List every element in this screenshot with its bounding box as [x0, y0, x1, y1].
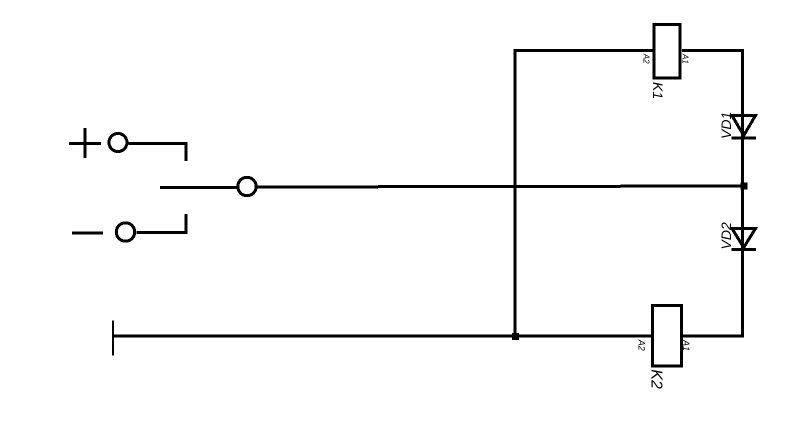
svg-text:A1: A1 [681, 339, 691, 351]
switch pole circle [238, 177, 256, 195]
wire middle net from pole to right branch [258, 186, 744, 187]
svg-text:K1: K1 [650, 82, 666, 99]
terminal bar bottom left [112, 321, 114, 356]
wire from minus contact to lower fixed contact stub [137, 214, 187, 233]
wire top-right, right vertical branch, bottom-right corner [682, 51, 743, 337]
wire top-left corner and vertical branch [515, 51, 653, 337]
diode VD2 [732, 229, 757, 250]
junction node middle net / right branch [741, 183, 748, 190]
wire from plus contact to upper fixed contact stub [129, 144, 187, 162]
junction node vertical branch / bottom net [512, 333, 519, 340]
svg-text:A1: A1 [681, 53, 690, 64]
relay coil K1 [654, 24, 680, 78]
svg-text:A2: A2 [637, 339, 647, 351]
minus terminal contact circle [116, 223, 134, 241]
wire switch pole left segment [160, 186, 237, 189]
svg-text:VD2: VD2 [718, 222, 734, 249]
minus polarity sign [72, 232, 103, 235]
relay coil K2 [653, 306, 682, 366]
plus terminal contact circle [109, 134, 127, 152]
wire bottom net [112, 335, 652, 338]
diode VD1 [732, 116, 757, 139]
svg-text:A2: A2 [642, 53, 651, 64]
plus polarity sign [69, 128, 101, 158]
svg-text:K2: K2 [648, 369, 665, 389]
svg-text:VD1: VD1 [718, 112, 734, 139]
